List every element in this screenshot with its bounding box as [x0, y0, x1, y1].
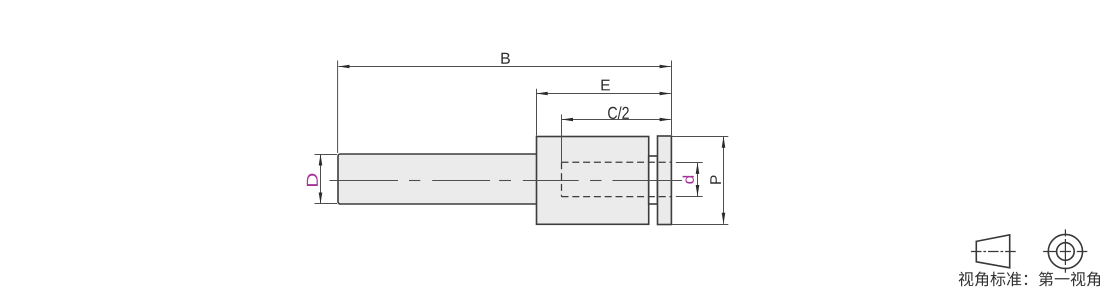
extension line bottom of d [676, 196, 703, 198]
end view horizontal crosshair [1043, 251, 1087, 253]
dimension line B [339, 66, 671, 68]
label D (magenta, rotated) [307, 174, 318, 186]
extension line top of P [672, 136, 729, 138]
extension line top of D [315, 154, 338, 156]
dimension line P [723, 137, 725, 224]
label P (rotated) [710, 175, 721, 183]
hidden hole bottom edge (dashed) [562, 196, 672, 198]
cone icon centerline [971, 251, 1016, 253]
head block (large cylinder body) [537, 137, 649, 225]
label d (magenta, rotated) [683, 176, 694, 184]
end view vertical crosshair [1064, 229, 1066, 272]
first-angle projection icon: end view outer circle [1048, 234, 1082, 268]
extension line left of B (shaft left end) [337, 61, 339, 154]
extension line right shared by B/E/C2 (flange right end) [671, 61, 673, 136]
dimension line C/2 [562, 119, 671, 121]
extension line left of C/2 (hole left end) [561, 115, 563, 163]
caption: viewing-angle standard first-angle (CJK outlines) [959, 272, 1100, 287]
label B [501, 53, 510, 64]
extension line left of E (head block left face) [536, 89, 538, 136]
neck groove (undercut between head and flange) [649, 156, 658, 204]
extension line top of d [676, 162, 703, 164]
dimension line E [537, 93, 671, 95]
hidden hole left end (dashed) [561, 162, 563, 196]
first-angle projection icon: truncated cone side view [976, 235, 1009, 268]
label C/2 [608, 106, 629, 119]
label E [601, 80, 609, 91]
dimension line d [697, 163, 699, 196]
dimension line D [320, 155, 322, 204]
end flange plate (diameter P) [658, 136, 672, 225]
extension line bottom of D [315, 203, 338, 205]
extension line bottom of P [672, 224, 729, 226]
centerline (dash-dot axis) [329, 180, 398, 182]
shaft body (small diameter D section) [338, 154, 537, 204]
end view inner circle [1057, 243, 1075, 261]
hidden hole top edge (dashed) [562, 161, 672, 163]
